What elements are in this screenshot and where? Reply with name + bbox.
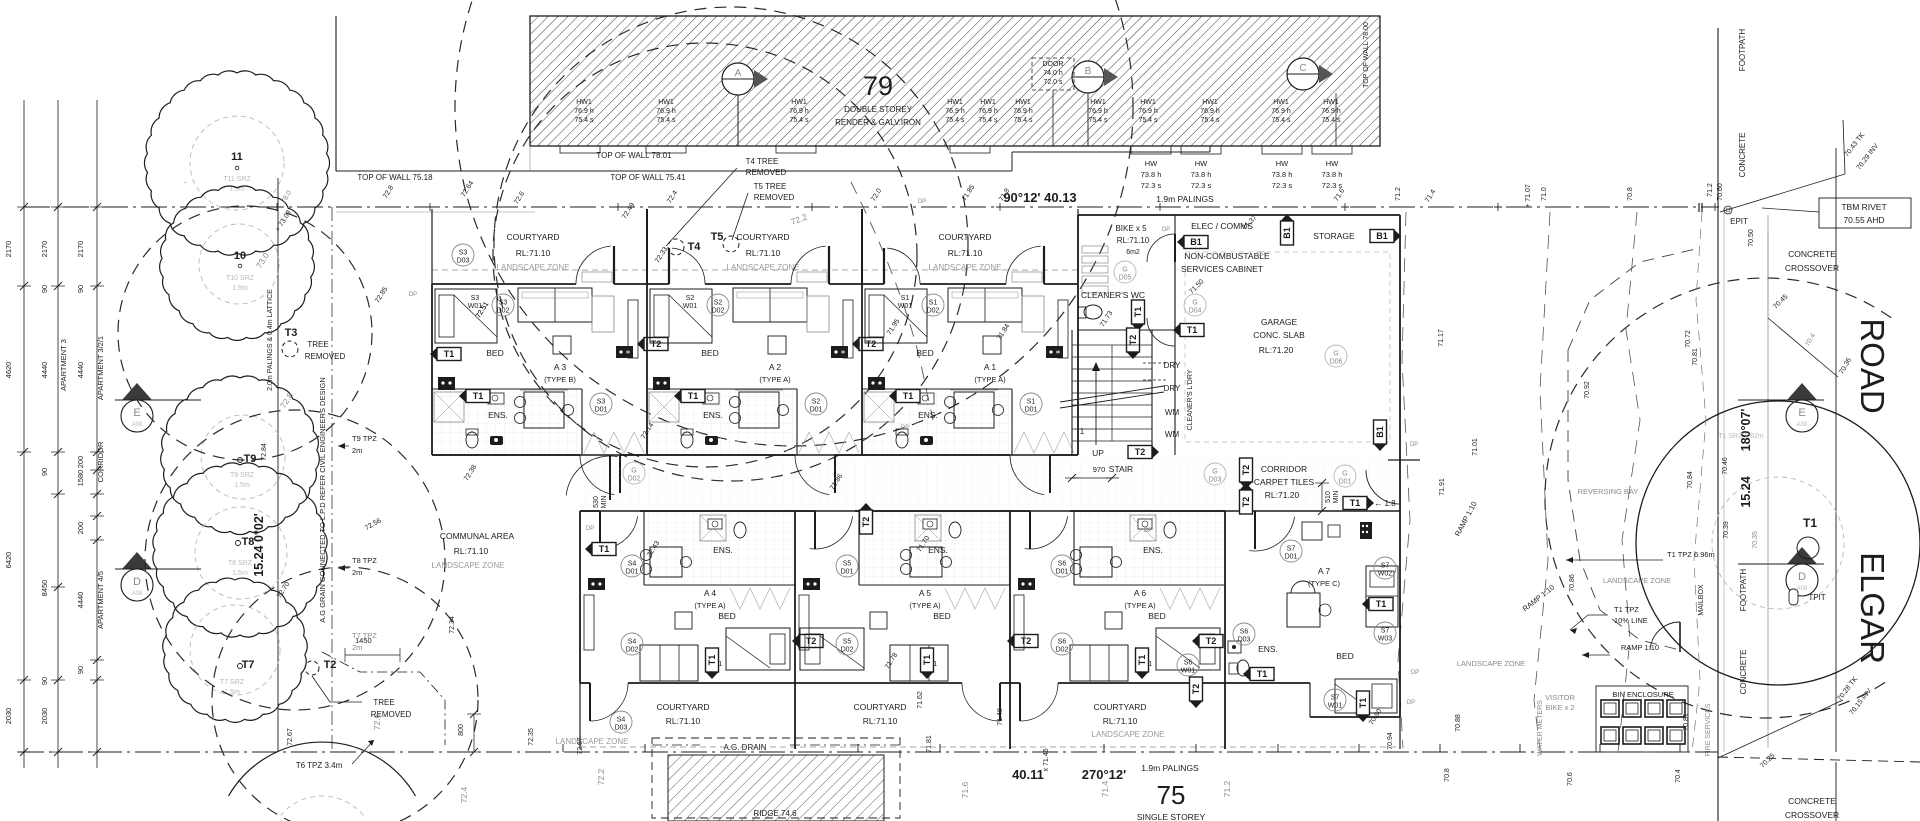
svg-text:APARTMENT 3: APARTMENT 3 bbox=[59, 339, 68, 391]
svg-text:RL:71.10: RL:71.10 bbox=[948, 248, 983, 258]
svg-text:ENS.: ENS. bbox=[488, 410, 508, 420]
bike racks bbox=[1082, 246, 1108, 253]
svg-text:VISITOR: VISITOR bbox=[1545, 693, 1575, 702]
svg-text:(TYPE A): (TYPE A) bbox=[759, 375, 791, 384]
svg-text:D05: D05 bbox=[1119, 275, 1132, 282]
svg-text:+ 71.07: + 71.07 bbox=[1525, 184, 1532, 208]
tree T8 bbox=[153, 463, 327, 637]
svg-text:ROAD: ROAD bbox=[1854, 318, 1891, 413]
tree 11 bbox=[144, 71, 329, 255]
svg-text:TREE: TREE bbox=[373, 698, 394, 707]
right boundary bbox=[1717, 28, 1719, 821]
svg-text:A: A bbox=[735, 68, 742, 79]
svg-text:76.9 h: 76.9 h bbox=[574, 108, 594, 115]
svg-text:D04: D04 bbox=[1189, 308, 1202, 315]
svg-text:T1: T1 bbox=[903, 391, 914, 401]
svg-text:970: 970 bbox=[1093, 465, 1106, 474]
svg-text:800: 800 bbox=[458, 724, 465, 736]
svg-text:T11 SRZ: T11 SRZ bbox=[223, 176, 251, 183]
svg-text:T2: T2 bbox=[1241, 497, 1251, 508]
svg-text:73.8 h: 73.8 h bbox=[1322, 170, 1343, 179]
svg-text:RL:71.10: RL:71.10 bbox=[863, 716, 898, 726]
svg-text:T5 TREE: T5 TREE bbox=[754, 182, 787, 191]
svg-text:T1: T1 bbox=[473, 391, 484, 401]
svg-text:D03: D03 bbox=[615, 725, 628, 732]
svg-text:(TYPE A): (TYPE A) bbox=[974, 375, 1006, 384]
svg-text:TREE: TREE bbox=[307, 340, 328, 349]
svg-text:T6 TPZ 3.4m: T6 TPZ 3.4m bbox=[296, 761, 343, 770]
door label bbox=[1032, 58, 1074, 90]
corridor bbox=[432, 454, 1078, 456]
svg-text:APARTMENT 3/2/1: APARTMENT 3/2/1 bbox=[96, 336, 105, 400]
svg-text:RL:71.20: RL:71.20 bbox=[1259, 345, 1294, 355]
svg-text:T2: T2 bbox=[1021, 636, 1032, 646]
svg-text:S3: S3 bbox=[499, 300, 508, 307]
svg-text:1.5m: 1.5m bbox=[224, 689, 240, 696]
svg-text:S7: S7 bbox=[1287, 546, 1296, 553]
unit S2 top wing bbox=[646, 284, 648, 455]
svg-text:CLEANER'S L'DRY: CLEANER'S L'DRY bbox=[1187, 369, 1194, 430]
A7 wardrobe bbox=[1366, 566, 1398, 627]
svg-text:76.9 h: 76.9 h bbox=[1271, 108, 1291, 115]
svg-text:D: D bbox=[1798, 571, 1806, 583]
svg-text:A08: A08 bbox=[132, 422, 143, 428]
svg-text:RENDER & GALV.IRON: RENDER & GALV.IRON bbox=[835, 118, 921, 127]
svg-text:D02: D02 bbox=[626, 647, 639, 654]
svg-text:C: C bbox=[1299, 63, 1306, 74]
svg-text:71.4: 71.4 bbox=[1100, 780, 1110, 797]
setback dashdot bbox=[331, 207, 333, 752]
svg-text:T4: T4 bbox=[688, 241, 702, 253]
svg-text:A 6: A 6 bbox=[1134, 588, 1147, 598]
svg-text:76.9 h: 76.9 h bbox=[1200, 108, 1220, 115]
svg-text:DP: DP bbox=[409, 292, 417, 298]
svg-text:70.60: 70.60 bbox=[1717, 183, 1724, 201]
svg-text:HW: HW bbox=[1145, 159, 1158, 168]
svg-text:DP: DP bbox=[901, 425, 909, 431]
svg-text:A08: A08 bbox=[1797, 422, 1808, 428]
svg-text:2170: 2170 bbox=[76, 241, 85, 258]
TPIT bbox=[1789, 589, 1798, 605]
corridor tile texture bbox=[584, 457, 1396, 509]
svg-text:CARPET TILES: CARPET TILES bbox=[1254, 477, 1314, 487]
svg-text:HW1: HW1 bbox=[980, 99, 996, 106]
svg-text:72.35: 72.35 bbox=[528, 728, 535, 746]
svg-text:STAIR: STAIR bbox=[1109, 464, 1133, 474]
reversing bay dashed outline bbox=[1568, 350, 1680, 650]
tree T6 canopy bbox=[229, 742, 416, 796]
svg-text:70.84: 70.84 bbox=[1687, 471, 1694, 489]
svg-text:DOUBLE STOREY: DOUBLE STOREY bbox=[844, 105, 913, 114]
svg-text:MAILBOX: MAILBOX bbox=[1698, 584, 1705, 615]
A7 desk bbox=[1287, 593, 1320, 627]
svg-text:75.4 s: 75.4 s bbox=[1321, 117, 1341, 124]
svg-text:A 7: A 7 bbox=[1318, 566, 1331, 576]
svg-text:B1: B1 bbox=[1376, 231, 1388, 241]
svg-text:1.9m PALINGS: 1.9m PALINGS bbox=[1156, 194, 1214, 204]
svg-text:DP: DP bbox=[1257, 252, 1265, 258]
svg-text:LANDSCAPE ZONE: LANDSCAPE ZONE bbox=[929, 263, 1002, 272]
svg-text:S5: S5 bbox=[843, 561, 852, 568]
svg-text:G: G bbox=[1192, 300, 1197, 307]
svg-text:T2: T2 bbox=[866, 339, 877, 349]
svg-text:DOOR: DOOR bbox=[1043, 61, 1064, 68]
svg-text:2.0m PALINGS & 0.4m LATTICE: 2.0m PALINGS & 0.4m LATTICE bbox=[267, 289, 274, 391]
svg-text:DP: DP bbox=[1407, 700, 1415, 706]
svg-text:HW1: HW1 bbox=[1015, 99, 1031, 106]
svg-text:75.4 s: 75.4 s bbox=[945, 117, 965, 124]
svg-text:D06: D06 bbox=[1330, 359, 1343, 366]
svg-text:STORAGE: STORAGE bbox=[1313, 231, 1355, 241]
svg-text:D02: D02 bbox=[712, 308, 725, 315]
svg-text:HW1: HW1 bbox=[658, 99, 674, 106]
svg-text:EPIT: EPIT bbox=[1730, 217, 1748, 226]
svg-text:A 5: A 5 bbox=[919, 588, 932, 598]
bottom site boundary bbox=[18, 751, 1718, 753]
svg-text:TPIT: TPIT bbox=[1808, 593, 1825, 602]
svg-text:BIKE x 2: BIKE x 2 bbox=[1545, 703, 1574, 712]
svg-text:73.8 h: 73.8 h bbox=[1272, 170, 1293, 179]
svg-text:73.8 h: 73.8 h bbox=[1191, 170, 1212, 179]
crossover top bbox=[1720, 174, 1845, 212]
svg-text:HW1: HW1 bbox=[1090, 99, 1106, 106]
svg-text:WATER METERS: WATER METERS bbox=[1537, 700, 1544, 756]
svg-text:4440: 4440 bbox=[76, 592, 85, 609]
svg-text:REMOVED: REMOVED bbox=[754, 193, 795, 202]
unit S3 top wing bbox=[431, 284, 433, 455]
svg-text:75.4 s: 75.4 s bbox=[1271, 117, 1291, 124]
svg-text:180°07': 180°07' bbox=[1739, 409, 1753, 452]
svg-text:D03: D03 bbox=[1209, 477, 1222, 484]
svg-text:G: G bbox=[1122, 267, 1127, 274]
svg-text:70.86: 70.86 bbox=[1569, 574, 1576, 592]
svg-text:D01: D01 bbox=[1056, 569, 1069, 576]
svg-text:A 4: A 4 bbox=[704, 588, 717, 598]
EPIT bbox=[1724, 206, 1732, 214]
svg-text:T2: T2 bbox=[861, 517, 871, 528]
svg-text:RL:71.10: RL:71.10 bbox=[666, 716, 701, 726]
svg-text:A 2: A 2 bbox=[769, 362, 782, 372]
svg-text:70.6: 70.6 bbox=[1567, 772, 1574, 786]
svg-text:75.4 s: 75.4 s bbox=[1013, 117, 1033, 124]
svg-text:1.5m: 1.5m bbox=[234, 482, 250, 489]
svg-text:S7: S7 bbox=[1381, 628, 1390, 635]
svg-text:72.3 s: 72.3 s bbox=[1272, 181, 1293, 190]
svg-text:D02: D02 bbox=[927, 308, 940, 315]
svg-text:D02: D02 bbox=[1056, 647, 1069, 654]
svg-text:71.91: 71.91 bbox=[1439, 478, 1446, 496]
svg-text:S2: S2 bbox=[686, 295, 695, 302]
courtyard fence walls bottom bbox=[794, 683, 796, 749]
extra S circles courtyards bbox=[452, 244, 474, 266]
svg-text:COURTYARD: COURTYARD bbox=[656, 702, 709, 712]
svg-text:S6: S6 bbox=[1058, 639, 1067, 646]
svg-text:71.62: 71.62 bbox=[917, 691, 924, 709]
svg-text:70.92: 70.92 bbox=[1584, 381, 1591, 399]
svg-text:LANDSCAPE ZONE: LANDSCAPE ZONE bbox=[1092, 730, 1165, 739]
svg-text:72.2: 72.2 bbox=[596, 768, 606, 785]
svg-text:T1: T1 bbox=[1376, 599, 1387, 609]
neighbour ridge hatched bbox=[652, 738, 900, 818]
svg-text:T2: T2 bbox=[651, 339, 662, 349]
svg-text:T1: T1 bbox=[1137, 655, 1147, 666]
svg-text:2030: 2030 bbox=[4, 708, 13, 725]
svg-text:W01: W01 bbox=[683, 303, 698, 310]
svg-text:T1: T1 bbox=[1187, 325, 1198, 335]
svg-text:T1: T1 bbox=[599, 544, 610, 554]
svg-text:COURTYARD: COURTYARD bbox=[1093, 702, 1146, 712]
svg-text:HW1: HW1 bbox=[576, 99, 592, 106]
svg-text:BED: BED bbox=[701, 348, 718, 358]
svg-text:1.5m: 1.5m bbox=[229, 186, 245, 193]
svg-text:76.9 h: 76.9 h bbox=[1138, 108, 1158, 115]
svg-text:T1: T1 bbox=[1133, 307, 1143, 318]
svg-text:G: G bbox=[1333, 351, 1338, 358]
svg-text:W03: W03 bbox=[1378, 636, 1393, 643]
svg-text:T4 TREE: T4 TREE bbox=[746, 157, 779, 166]
bin enclosure bbox=[1596, 686, 1688, 752]
A7 bed bbox=[1335, 679, 1397, 713]
svg-text:FOOTPATH: FOOTPATH bbox=[1738, 29, 1747, 72]
svg-text:T9 TPZ: T9 TPZ bbox=[352, 434, 377, 443]
svg-text:75.4 s: 75.4 s bbox=[978, 117, 998, 124]
svg-text:T1: T1 bbox=[1350, 498, 1361, 508]
svg-text:S7: S7 bbox=[1381, 563, 1390, 570]
crossover diagonal bbox=[1768, 318, 1838, 377]
svg-text:4440: 4440 bbox=[40, 362, 49, 379]
svg-text:A08: A08 bbox=[132, 591, 143, 597]
svg-text:DP: DP bbox=[1144, 528, 1152, 534]
unit S4 bottom wing bbox=[579, 511, 581, 683]
svg-text:1580: 1580 bbox=[76, 470, 85, 487]
svg-text:COURTYARD: COURTYARD bbox=[736, 232, 789, 242]
svg-text:72.34: 72.34 bbox=[449, 616, 456, 634]
svg-text:1.5m: 1.5m bbox=[232, 570, 248, 577]
svg-text:T1 TPZ: T1 TPZ bbox=[1614, 605, 1639, 614]
svg-text:76.9 h: 76.9 h bbox=[789, 108, 809, 115]
svg-text:BED: BED bbox=[1336, 651, 1353, 661]
svg-text:S2: S2 bbox=[812, 399, 821, 406]
svg-text:RL:71.10: RL:71.10 bbox=[1103, 716, 1138, 726]
svg-text:TBM RIVET: TBM RIVET bbox=[1841, 202, 1886, 212]
svg-text:BED: BED bbox=[1148, 611, 1165, 621]
svg-text:D03: D03 bbox=[457, 258, 470, 265]
svg-text:S3: S3 bbox=[459, 250, 468, 257]
svg-text:D01: D01 bbox=[1285, 554, 1298, 561]
svg-text:72.84: 72.84 bbox=[261, 443, 268, 461]
svg-text:ENS.: ENS. bbox=[928, 545, 948, 555]
svg-text:79: 79 bbox=[863, 71, 893, 101]
garage door arcs bbox=[1147, 234, 1175, 262]
svg-text:75.4 s: 75.4 s bbox=[574, 117, 594, 124]
svg-text:HW: HW bbox=[1326, 159, 1339, 168]
svg-text:S3: S3 bbox=[597, 399, 606, 406]
svg-text:T1: T1 bbox=[707, 655, 717, 666]
svg-text:71.2: 71.2 bbox=[1395, 187, 1402, 201]
svg-text:D02: D02 bbox=[841, 647, 854, 654]
svg-text:T1: T1 bbox=[922, 655, 932, 666]
svg-text:2170: 2170 bbox=[4, 241, 13, 258]
svg-text:11: 11 bbox=[231, 151, 243, 163]
contour lines bbox=[1398, 212, 1410, 748]
svg-text:CLEANER'S WC: CLEANER'S WC bbox=[1081, 290, 1145, 300]
svg-text:ENS.: ENS. bbox=[713, 545, 733, 555]
A7 entry furniture bbox=[1302, 522, 1322, 540]
svg-text:T1: T1 bbox=[1358, 698, 1368, 709]
svg-text:D01: D01 bbox=[1025, 407, 1038, 414]
svg-text:B1: B1 bbox=[1282, 227, 1292, 239]
svg-text:70.46: 70.46 bbox=[1722, 457, 1729, 475]
svg-text:90: 90 bbox=[40, 677, 49, 685]
svg-text:T2: T2 bbox=[1241, 465, 1251, 476]
svg-text:GARAGE: GARAGE bbox=[1261, 317, 1298, 327]
svg-text:CROSSOVER: CROSSOVER bbox=[1785, 810, 1839, 820]
svg-text:BED: BED bbox=[718, 611, 735, 621]
svg-text:75.4 s: 75.4 s bbox=[656, 117, 676, 124]
svg-text:TOP OF WALL 78.00: TOP OF WALL 78.00 bbox=[1363, 22, 1370, 88]
svg-text:HW1: HW1 bbox=[1140, 99, 1156, 106]
svg-text:D01: D01 bbox=[1339, 479, 1352, 486]
svg-text:2170: 2170 bbox=[40, 241, 49, 258]
svg-text:T1: T1 bbox=[688, 391, 699, 401]
svg-text:DP: DP bbox=[1410, 442, 1418, 448]
svg-text:S4: S4 bbox=[628, 639, 637, 646]
svg-text:270°12': 270°12' bbox=[1082, 767, 1126, 782]
door arc corridor right bbox=[1366, 470, 1399, 504]
svg-text:T1: T1 bbox=[444, 349, 455, 359]
building 79 hatched bbox=[530, 16, 1380, 146]
svg-text:COURTYARD: COURTYARD bbox=[506, 232, 559, 242]
svg-text:D02: D02 bbox=[497, 308, 510, 315]
svg-text:CONC. SLAB: CONC. SLAB bbox=[1253, 330, 1305, 340]
svg-text:6420: 6420 bbox=[4, 552, 13, 569]
svg-text:W01: W01 bbox=[1181, 668, 1196, 675]
svg-text:76.9 h: 76.9 h bbox=[656, 108, 676, 115]
svg-text:76.9 h: 76.9 h bbox=[978, 108, 998, 115]
svg-text:W02: W02 bbox=[1378, 571, 1393, 578]
svg-text:71.01: 71.01 bbox=[1472, 438, 1479, 456]
T4 T5 circles bbox=[668, 239, 684, 255]
svg-text:2m: 2m bbox=[352, 446, 362, 455]
svg-text:6m2: 6m2 bbox=[1126, 249, 1140, 256]
svg-text:COMMUNAL AREA: COMMUNAL AREA bbox=[440, 531, 515, 541]
svg-text:S1: S1 bbox=[901, 295, 910, 302]
svg-text:74.0 h: 74.0 h bbox=[1043, 70, 1063, 77]
svg-text:HW: HW bbox=[1195, 159, 1208, 168]
top site boundary bbox=[24, 206, 1718, 208]
svg-text:D01: D01 bbox=[810, 407, 823, 414]
svg-text:71.0: 71.0 bbox=[1541, 187, 1548, 201]
svg-text:HW1: HW1 bbox=[791, 99, 807, 106]
svg-text:S7: S7 bbox=[1331, 695, 1340, 702]
garage block bbox=[1078, 214, 1400, 216]
left fence bbox=[277, 178, 279, 752]
svg-text:BED: BED bbox=[933, 611, 950, 621]
svg-text:T5: T5 bbox=[711, 231, 724, 243]
svg-text:72.4: 72.4 bbox=[459, 786, 469, 803]
svg-text:CONCRETE: CONCRETE bbox=[1739, 650, 1748, 695]
svg-text:CONCRETE: CONCRETE bbox=[1738, 133, 1747, 178]
svg-text:70.55 AHD: 70.55 AHD bbox=[1843, 215, 1884, 225]
svg-text:71.17: 71.17 bbox=[1438, 329, 1445, 347]
svg-text:HW1: HW1 bbox=[1323, 99, 1339, 106]
svg-text:D01: D01 bbox=[626, 569, 639, 576]
svg-text:D: D bbox=[133, 576, 141, 588]
svg-text:DP: DP bbox=[1411, 670, 1419, 676]
svg-text:70.4: 70.4 bbox=[1675, 769, 1682, 783]
svg-text:10% LINE: 10% LINE bbox=[1614, 616, 1648, 625]
svg-text:T1: T1 bbox=[1257, 669, 1268, 679]
svg-text:72.67: 72.67 bbox=[287, 728, 294, 746]
marker D right bbox=[1738, 547, 1824, 596]
svg-text:DRY: DRY bbox=[1164, 361, 1181, 370]
svg-text:APARTMENT 4/5: APARTMENT 4/5 bbox=[96, 571, 105, 629]
A7 entry door bbox=[1254, 511, 1256, 549]
svg-text:UP: UP bbox=[1092, 448, 1104, 458]
svg-text:TOP OF WALL 75.18: TOP OF WALL 75.18 bbox=[357, 173, 433, 182]
svg-text:S4: S4 bbox=[617, 717, 626, 724]
svg-text:76.9 h: 76.9 h bbox=[945, 108, 965, 115]
marker D left bbox=[115, 552, 201, 601]
svg-text:71.2: 71.2 bbox=[1707, 183, 1714, 197]
svg-text:S1: S1 bbox=[1027, 399, 1036, 406]
svg-text:CROSSOVER: CROSSOVER bbox=[1785, 263, 1839, 273]
svg-text:W01: W01 bbox=[1328, 703, 1343, 710]
svg-text:D01: D01 bbox=[841, 569, 854, 576]
svg-text:SINGLE STOREY: SINGLE STOREY bbox=[1137, 812, 1206, 821]
svg-text:CORRIDOR: CORRIDOR bbox=[1261, 464, 1307, 474]
svg-text:A.G. DRAIN: A.G. DRAIN bbox=[723, 743, 766, 752]
svg-text:15.24 0°02': 15.24 0°02' bbox=[252, 513, 266, 577]
svg-text:S4: S4 bbox=[628, 561, 637, 568]
svg-text:S6: S6 bbox=[1240, 629, 1249, 636]
svg-text:TOP OF WALL 75.41: TOP OF WALL 75.41 bbox=[610, 173, 686, 182]
exit door bottom right bbox=[1650, 622, 1680, 649]
svg-text:HW1: HW1 bbox=[947, 99, 963, 106]
svg-text:RIDGE 74.6: RIDGE 74.6 bbox=[753, 809, 797, 818]
svg-text:90: 90 bbox=[76, 285, 85, 293]
svg-text:E: E bbox=[133, 407, 140, 419]
svg-text:T8 SRZ: T8 SRZ bbox=[228, 560, 253, 567]
svg-text:LANDSCAPE ZONE: LANDSCAPE ZONE bbox=[432, 561, 505, 570]
svg-text:71.2: 71.2 bbox=[1222, 780, 1232, 797]
svg-text:10: 10 bbox=[234, 250, 246, 262]
courtyard fence ticks bbox=[562, 744, 564, 752]
svg-text:T7 SRZ: T7 SRZ bbox=[220, 679, 245, 686]
svg-text:COURTYARD: COURTYARD bbox=[938, 232, 991, 242]
svg-text:T1: T1 bbox=[1803, 516, 1817, 530]
svg-text:CONCRETE: CONCRETE bbox=[1788, 249, 1836, 259]
contour 72.2 bbox=[851, 182, 933, 420]
svg-text:75: 75 bbox=[1157, 780, 1186, 810]
svg-text:T3: T3 bbox=[285, 327, 298, 339]
svg-text:ELGAR: ELGAR bbox=[1854, 552, 1891, 664]
svg-text:T1 SRZ 2.62m: T1 SRZ 2.62m bbox=[1718, 433, 1764, 440]
svg-text:REVERSING BAY: REVERSING BAY bbox=[1578, 487, 1639, 496]
svg-text:73.8 h: 73.8 h bbox=[1141, 170, 1162, 179]
svg-text:72.3 s: 72.3 s bbox=[1191, 181, 1212, 190]
svg-text:RL:71.20: RL:71.20 bbox=[1265, 490, 1300, 500]
svg-text:LANDSCAPE ZONE: LANDSCAPE ZONE bbox=[1603, 576, 1671, 585]
dimension lines bbox=[23, 100, 25, 768]
svg-text:REMOVED: REMOVED bbox=[305, 352, 346, 361]
svg-text:E: E bbox=[1798, 407, 1805, 419]
svg-text:D03: D03 bbox=[1238, 637, 1251, 644]
svg-text:WM: WM bbox=[1165, 408, 1180, 417]
svg-text:70.8: 70.8 bbox=[1627, 187, 1634, 201]
svg-text:LANDSCAPE ZONE: LANDSCAPE ZONE bbox=[727, 263, 800, 272]
svg-text:(TYPE A): (TYPE A) bbox=[909, 601, 941, 610]
